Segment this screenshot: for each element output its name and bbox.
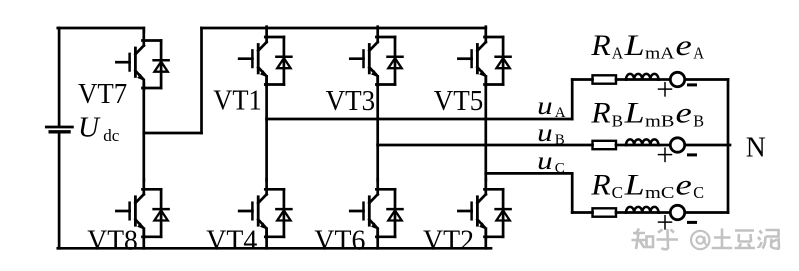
wire: VT6 emitter to bottom rail: [376, 229, 379, 249]
inductor L_mC: [626, 207, 658, 213]
wire: phase C drop to load branch C: [571, 173, 574, 212]
svg-text:mA: mA: [645, 44, 675, 63]
wire: VT5 emitter to phase-C node: [484, 76, 487, 173]
wire: phase A output u_A line: [267, 118, 573, 121]
svg-text:e: e: [676, 29, 692, 62]
wire: bridge feed vertical (left edge of bridge box): [200, 28, 203, 133]
wire: right neutral bus vertical (node N): [727, 80, 730, 213]
svg-text:e: e: [676, 168, 692, 201]
transistor VT6 with antiparallel diode (IGBT cell): [350, 179, 402, 238]
svg-text:A: A: [612, 44, 624, 63]
transistor VT5 with antiparallel diode (IGBT cell): [458, 27, 510, 86]
voltage source e_C (circle): [670, 205, 684, 219]
svg-text:B: B: [555, 132, 565, 148]
svg-text:C: C: [555, 161, 565, 177]
svg-text:B: B: [612, 111, 623, 130]
transistor VT2 with antiparallel diode (IGBT cell): [458, 179, 510, 238]
svg-text:U: U: [78, 112, 101, 144]
svg-text:dc: dc: [103, 126, 120, 145]
svg-text:C: C: [693, 183, 704, 202]
battery U_dc cell: short negative plate: [50, 130, 69, 133]
wire: bridge top DC rail: [202, 27, 486, 30]
wire: VT1 emitter to phase-A node: [265, 76, 268, 119]
wire: R_C to inductor L_mC: [616, 211, 626, 214]
wire: phase-C node down to VT2 collector: [484, 173, 487, 180]
svg-text:e: e: [676, 97, 692, 130]
wire: source e_A to neutral bus: [685, 78, 728, 81]
transistor VT3 with antiparallel diode (IGBT cell): [350, 27, 402, 86]
wire: phase-B node down to VT6 collector: [376, 145, 379, 180]
polarity - of e_C: [689, 221, 696, 224]
watermark "知乎 @土豆泥" (drawn strokes, decorative-but-visible): [632, 229, 780, 250]
wire: source e_C to neutral bus: [685, 211, 728, 214]
wire: R_B to inductor L_mB: [616, 144, 626, 147]
svg-text:L: L: [624, 97, 645, 130]
resistor R_C: [593, 208, 617, 216]
svg-text:u: u: [537, 120, 553, 147]
svg-text:mB: mB: [645, 111, 674, 130]
wire: VT8 emitter to bottom rail: [142, 229, 145, 249]
svg-text:C: C: [612, 183, 623, 202]
wire: branch C lead-in to resistor R_C: [572, 211, 592, 214]
wire: VT3 emitter to phase-B node: [376, 76, 379, 145]
polarity - of e_A: [689, 83, 696, 86]
transistor VT8 with antiparallel diode (IGBT cell): [116, 179, 168, 238]
wire: battery negative lead (bottom-left vertical): [58, 133, 61, 248]
wire: mid node down to VT8 collector: [142, 133, 145, 180]
svg-text:u: u: [537, 93, 553, 120]
polarity + of e_A: [659, 88, 672, 90]
svg-text:VT5: VT5: [434, 85, 484, 117]
voltage source e_B (circle): [670, 138, 684, 152]
svg-text:A: A: [555, 105, 566, 121]
svg-text:N: N: [746, 133, 766, 164]
svg-text:u: u: [537, 148, 553, 175]
wire: phase B output u_B line to R_B: [378, 144, 593, 147]
wire: phase-A node down to VT4 collector: [265, 119, 268, 180]
wire: VT7 collector stub: [142, 28, 145, 32]
transistor VT1 with antiparallel diode (IGBT cell): [239, 27, 291, 86]
wire: phase A riser to load branch A: [571, 80, 574, 120]
wire: source e_B to neutral bus: [685, 144, 730, 147]
svg-text:R: R: [590, 29, 610, 62]
inductor L_mA: [626, 74, 658, 80]
wire: bottom DC- rail: [58, 247, 491, 250]
svg-text:VT8: VT8: [87, 225, 138, 257]
svg-text:R: R: [590, 168, 610, 201]
wire: R_A to inductor L_mA: [616, 78, 626, 81]
wire: phase C output u_C line: [486, 172, 572, 175]
wire: mid node horizontal to bridge feed: [144, 132, 202, 135]
svg-text:VT2: VT2: [423, 225, 474, 257]
wire: L_mC to source e_C: [659, 211, 671, 214]
wire: VT7 emitter to mid node: [142, 83, 145, 133]
wire: battery positive lead (top-left vertical): [58, 28, 61, 126]
svg-text:VT1: VT1: [213, 85, 261, 117]
inductor L_mB: [626, 139, 658, 145]
svg-text:L: L: [624, 168, 645, 201]
voltage source e_A (circle): [670, 72, 684, 86]
wire: branch A lead-in to resistor R_A: [572, 78, 592, 81]
polarity + of e_C: [659, 221, 672, 223]
svg-text:L: L: [624, 29, 645, 62]
svg-text:VT7: VT7: [78, 78, 127, 110]
transistor VT7 with antiparallel diode (IGBT cell): [116, 30, 168, 89]
svg-text:mC: mC: [645, 183, 674, 202]
wire: L_mB to source e_B: [659, 144, 671, 147]
transistor VT4 with antiparallel diode (IGBT cell): [239, 179, 291, 238]
svg-text:VT4: VT4: [206, 225, 257, 257]
svg-text:VT3: VT3: [326, 85, 376, 117]
polarity - of e_B: [689, 153, 696, 156]
resistor R_B: [593, 141, 617, 149]
svg-text:VT6: VT6: [314, 225, 365, 257]
watermark @ glyph (drawn): [691, 231, 709, 249]
wire: top rail of VT7 leg (DC+ to VT7 collector): [58, 27, 144, 30]
svg-text:R: R: [590, 97, 610, 130]
resistor R_A: [593, 75, 617, 83]
wire: VT2 emitter to bottom rail: [484, 229, 487, 249]
wire: VT4 emitter to bottom rail: [265, 229, 268, 249]
wire: L_mA to source e_A: [659, 78, 671, 81]
svg-text:A: A: [693, 44, 704, 63]
svg-text:B: B: [693, 111, 704, 130]
battery U_dc cell: long positive plate: [46, 126, 72, 129]
polarity + of e_B: [659, 154, 672, 156]
